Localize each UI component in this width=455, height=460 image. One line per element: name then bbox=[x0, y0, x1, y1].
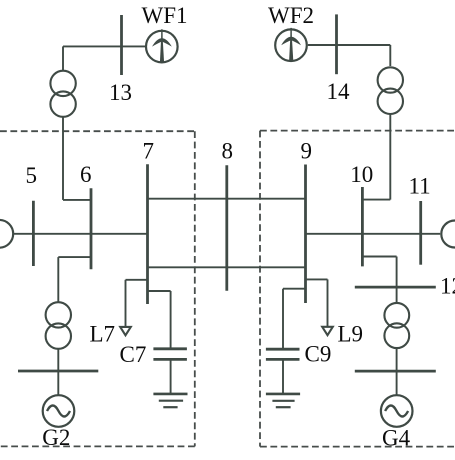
wire bar to G4 bbox=[396, 371, 398, 395]
G2 terminal bar bbox=[18, 370, 98, 373]
bus 14 bbox=[335, 14, 338, 74]
wire WF1 to bus13 to transformer lead bbox=[63, 45, 145, 47]
svg-text:C9: C9 bbox=[305, 342, 332, 367]
WF1 turbine icon bbox=[152, 29, 172, 62]
bus 5 bbox=[32, 201, 35, 266]
svg-text:9: 9 bbox=[301, 139, 313, 164]
load L9 branch vertical bbox=[327, 279, 329, 326]
transformer T3 (WF2) bbox=[378, 67, 403, 92]
main line right: bus9 to grid bbox=[306, 233, 441, 235]
G4 branch horizontal from bus10 bbox=[362, 256, 396, 258]
bus 9 bbox=[304, 165, 307, 304]
svg-text:12: 12 bbox=[440, 274, 455, 299]
capacitor C9 lead bbox=[282, 289, 284, 350]
G4 sine wave bbox=[385, 406, 408, 417]
G4 branch vertical bbox=[396, 257, 398, 303]
generator G4 circle bbox=[381, 395, 413, 427]
wire T1 to bus6 horizontal bbox=[63, 199, 91, 201]
WF2 turbine icon bbox=[281, 28, 301, 61]
wire WF2 to bus14 bbox=[308, 44, 391, 46]
ground C9 bbox=[266, 393, 300, 396]
bus 7 bbox=[146, 164, 149, 304]
bus 11 bbox=[419, 201, 422, 265]
svg-text:G2: G2 bbox=[42, 425, 70, 450]
wire T3 to bus10 vertical bbox=[389, 114, 391, 200]
wire T2 to G2 bar bbox=[57, 349, 59, 371]
capacitor C9 branch horizontal bbox=[283, 288, 306, 290]
svg-text:14: 14 bbox=[327, 79, 351, 104]
svg-text:6: 6 bbox=[80, 162, 92, 187]
generator G2 circle bbox=[43, 395, 75, 427]
G2 branch vertical bbox=[57, 257, 59, 302]
wire T1 to bus6 vertical bbox=[62, 117, 64, 200]
bus 6 bbox=[90, 188, 93, 269]
bus 13 bbox=[120, 15, 123, 75]
G4 terminal bar bbox=[355, 370, 436, 373]
main line left: grid to bus7 bbox=[14, 233, 148, 235]
svg-text:L9: L9 bbox=[338, 322, 364, 347]
svg-text:C7: C7 bbox=[120, 342, 147, 367]
external grid circle right bbox=[441, 221, 455, 248]
wire down to transformer T3 bbox=[389, 45, 391, 66]
capacitor C7 branch horizontal bbox=[148, 290, 171, 292]
wire T4 to G4 bar bbox=[396, 348, 398, 371]
transmission line 7-8-9 upper bbox=[148, 198, 306, 200]
svg-text:WF1: WF1 bbox=[142, 3, 188, 28]
transformer T1 (WF1) bbox=[50, 71, 75, 96]
svg-text:WF2: WF2 bbox=[268, 3, 314, 28]
wire down from WF1 wire to transformer T1 bbox=[62, 46, 64, 70]
transformer T4 (G4) bbox=[384, 303, 409, 328]
wind farm WF1 circle bbox=[146, 31, 178, 63]
ground C7 bbox=[153, 393, 187, 396]
capacitor C9 plates bbox=[266, 348, 300, 351]
svg-text:13: 13 bbox=[109, 80, 132, 105]
G2 sine wave bbox=[47, 406, 70, 417]
capacitor C7 lower lead bbox=[170, 359, 172, 394]
svg-text:10: 10 bbox=[350, 162, 373, 187]
wire bar to G2 bbox=[57, 371, 59, 395]
capacitor C7 lead bbox=[170, 291, 172, 349]
transformer T2 (G2) bbox=[46, 302, 71, 327]
wire T3 to bus10 horizontal bbox=[362, 199, 390, 201]
transmission line 7-8-9 lower bbox=[148, 266, 306, 268]
svg-text:L7: L7 bbox=[90, 322, 116, 347]
svg-text:G4: G4 bbox=[382, 426, 411, 451]
svg-text:8: 8 bbox=[222, 139, 234, 164]
capacitor C9 lower lead bbox=[282, 359, 284, 394]
wind farm WF2 circle bbox=[275, 29, 307, 61]
external grid circle left bbox=[0, 220, 13, 248]
bus 10 bbox=[361, 187, 364, 266]
capacitor C7 plates bbox=[153, 347, 187, 350]
dashed box left area bbox=[0, 131, 195, 446]
svg-text:5: 5 bbox=[26, 163, 38, 188]
svg-text:11: 11 bbox=[409, 174, 431, 199]
load L7 arrow bbox=[120, 327, 131, 335]
svg-text:7: 7 bbox=[143, 139, 155, 164]
load L9 branch horizontal bbox=[306, 278, 328, 280]
load L9 arrow bbox=[322, 327, 333, 335]
bus 8 bbox=[225, 165, 228, 291]
bus 12 (horizontal) bbox=[355, 286, 436, 289]
dashed box right area bbox=[260, 131, 455, 447]
load L7 branch vertical bbox=[125, 280, 127, 327]
load L7 branch horizontal bbox=[126, 279, 148, 281]
G2 branch horizontal from bus6 bbox=[58, 256, 91, 258]
